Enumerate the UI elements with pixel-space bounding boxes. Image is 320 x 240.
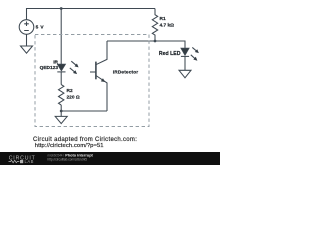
- resistor R1 4.7k: [152, 9, 157, 42]
- svg-text:QED123: QED123: [40, 65, 59, 71]
- logo LAB: [20, 160, 23, 163]
- svg-text:IR: IR: [53, 60, 58, 66]
- IR LED QED123: [57, 64, 65, 71]
- resistor R2 220 ohm: [59, 85, 64, 105]
- svg-text:Circuit adapted from Cirictech: Circuit adapted from Cirictech.com:: [33, 137, 137, 143]
- svg-text:R1: R1: [160, 16, 166, 22]
- wire collector to R1 node: [107, 40, 155, 42]
- svg-text:IRDetector: IRDetector: [113, 70, 138, 76]
- IR LED emission arrow 2: [70, 68, 77, 74]
- red LED emission arrow 1: [192, 47, 199, 53]
- wire LED to R2: [60, 72, 62, 85]
- node top junction: [60, 7, 63, 10]
- footer bar: [0, 152, 220, 165]
- wire node to ground: [60, 111, 62, 116]
- ground (red LED): [179, 70, 191, 78]
- ground (main): [55, 116, 67, 123]
- labels: [36, 16, 181, 101]
- logo resistor zigzag: [9, 160, 20, 162]
- wire LED to ground: [184, 56, 186, 70]
- transistor Q1 IRDetector: [95, 62, 97, 80]
- red LED emission arrow 2: [191, 55, 198, 61]
- node bottom junction: [60, 110, 63, 113]
- svg-text:5 V: 5 V: [36, 25, 45, 31]
- wire node to red LED: [155, 41, 185, 48]
- svg-text:Red LED: Red LED: [159, 51, 181, 57]
- svg-text:R2: R2: [67, 88, 73, 94]
- svg-text:http://circuitlab.com/c/8cv9k5: http://circuitlab.com/c/8cv9k5: [48, 158, 88, 162]
- ground (V1): [21, 46, 33, 53]
- wire bottom rail: [61, 110, 107, 112]
- wire IR branch drop: [60, 9, 62, 65]
- wire V1 to ground: [26, 34, 28, 46]
- svg-text:220 Ω: 220 Ω: [67, 95, 80, 101]
- voltage source V1 5 V: [19, 20, 34, 35]
- dashed module boundary box: [35, 35, 149, 127]
- wire top rail: [27, 9, 156, 20]
- IR LED emission arrow 1: [71, 61, 78, 67]
- LED D1 Red LED: [181, 48, 189, 55]
- svg-text:4.7 kΩ: 4.7 kΩ: [160, 23, 175, 29]
- svg-text:LAB: LAB: [25, 159, 34, 164]
- node R1 bottom junction: [154, 40, 157, 43]
- svg-text:http://cirictech.com/?p=51: http://cirictech.com/?p=51: [35, 143, 104, 149]
- wire R2 to bottom node: [60, 105, 62, 111]
